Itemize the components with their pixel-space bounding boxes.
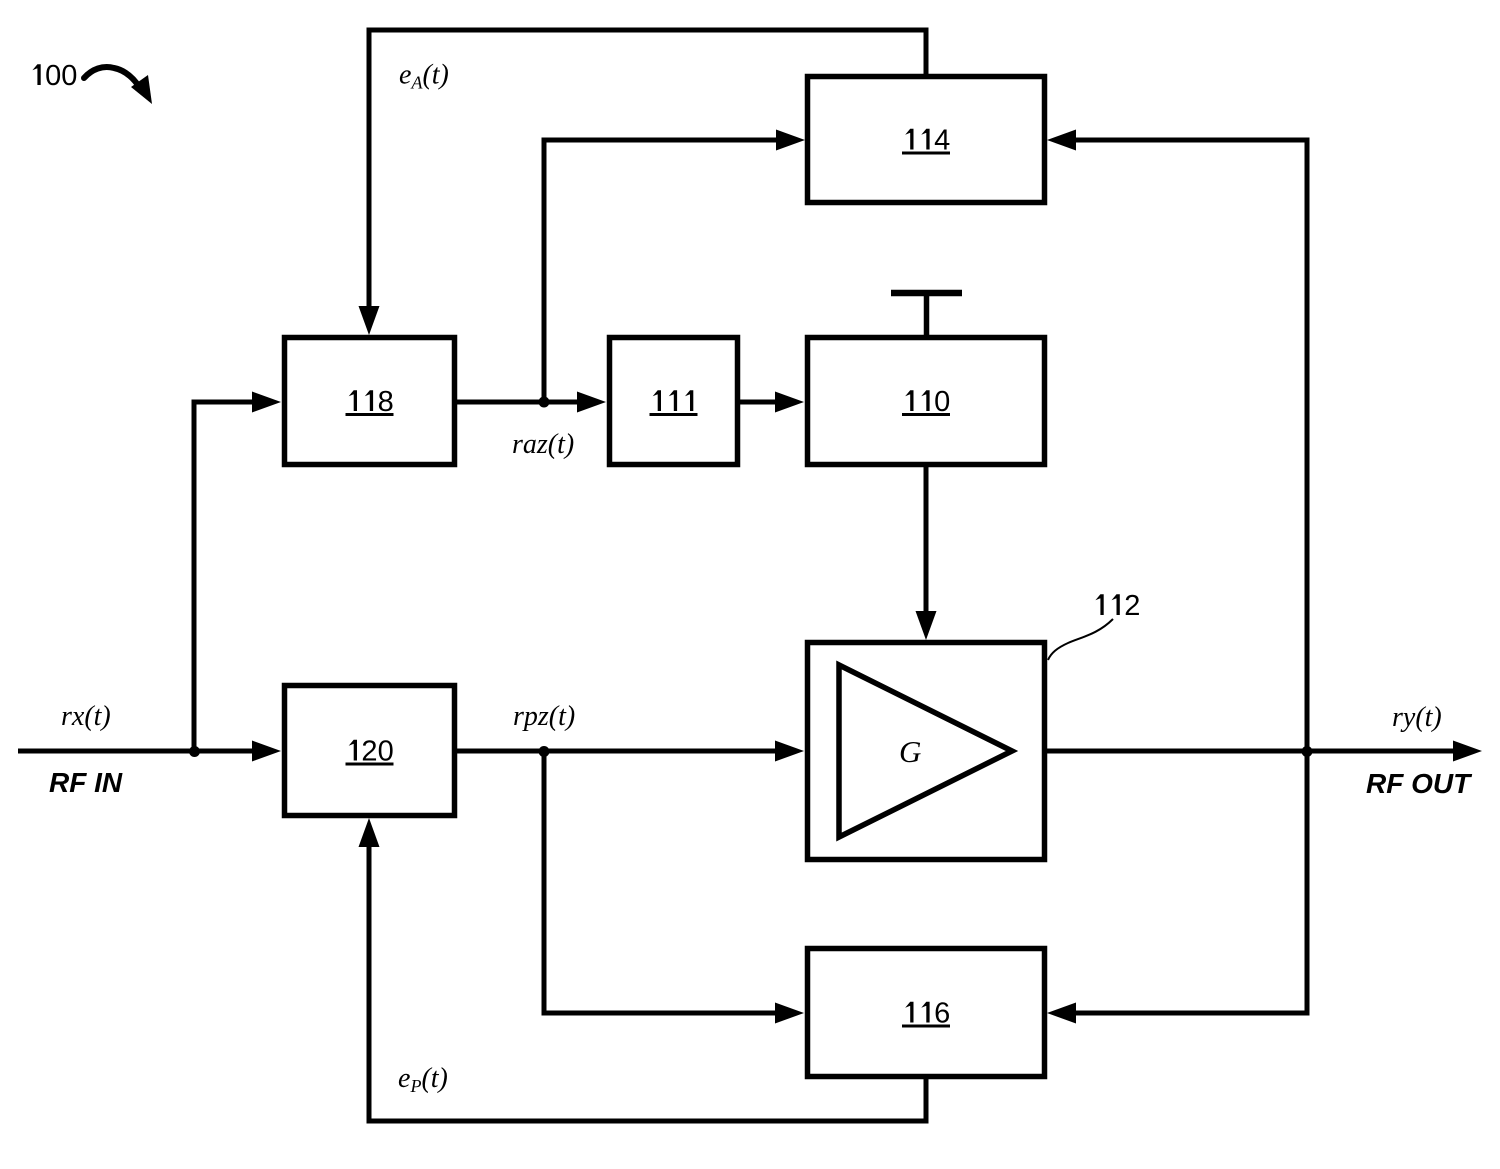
- arrowhead into 118 top: [359, 306, 380, 335]
- block 120: [285, 686, 455, 816]
- leader swoosh arrow for 100: [84, 67, 152, 104]
- arrowhead into 112 left: [775, 741, 804, 762]
- wire 120 to 112: [457, 749, 779, 754]
- wire into 116 right: [1073, 1011, 1307, 1016]
- junction dot rpz node: [539, 746, 550, 757]
- label eA(t): [399, 60, 449, 93]
- svg-text:G: G: [899, 734, 921, 769]
- svg-text:RF OUT: RF OUT: [1366, 768, 1473, 799]
- label rpz(t): [513, 701, 575, 732]
- figure label 100: [32, 60, 77, 92]
- arrowhead into 110 left: [775, 392, 804, 413]
- label G: [899, 734, 921, 769]
- arrowhead into 111 left: [577, 392, 606, 413]
- block 110: [808, 338, 1045, 465]
- antenna symbol on 110: [891, 293, 962, 337]
- svg-text:0: 0: [61, 60, 77, 92]
- label ry(t): [1392, 702, 1442, 733]
- label rx(t): [61, 701, 111, 732]
- svg-text:eP(t): eP(t): [398, 1063, 448, 1096]
- label eP(t): [398, 1063, 448, 1096]
- arrowhead into 118 left: [252, 392, 281, 413]
- arrowhead into 120 left: [252, 741, 281, 762]
- block 111: [610, 338, 738, 465]
- amplifier triangle: [839, 665, 1012, 837]
- block 112 (amplifier): [808, 643, 1045, 860]
- junction dot ry node: [1302, 746, 1313, 757]
- RF IN line: [18, 749, 257, 754]
- svg-text:rpz(t): rpz(t): [513, 701, 575, 732]
- svg-text:eA(t): eA(t): [399, 60, 449, 93]
- label raz(t): [512, 429, 574, 460]
- label RF IN: [49, 767, 123, 798]
- arrowhead RF OUT: [1453, 741, 1482, 762]
- wire 112 to RF OUT: [1047, 749, 1456, 754]
- wire 111 to 110: [740, 400, 780, 405]
- wire 110 down to 112: [924, 467, 929, 615]
- wire rpz branch down into 116 left: [544, 751, 779, 1013]
- svg-text:RF IN: RF IN: [49, 767, 123, 798]
- squiggle leader from 112 label to block corner: [1048, 619, 1113, 660]
- label RF OUT: [1366, 768, 1473, 799]
- arrowhead into 112 top: [916, 611, 937, 640]
- svg-text:raz(t): raz(t): [512, 429, 574, 460]
- junction dot rx node: [189, 746, 200, 757]
- wire right feedback vertical (ry node down to 116 level): [1305, 138, 1310, 1016]
- svg-text:ry(t): ry(t): [1392, 702, 1442, 733]
- svg-text:2: 2: [1124, 590, 1140, 622]
- arrowhead into 116 right: [1047, 1003, 1076, 1024]
- wire into 114 right: [1072, 138, 1307, 143]
- svg-text:rx(t): rx(t): [61, 701, 111, 732]
- wire raz branch up into 114 left: [544, 140, 780, 402]
- svg-text:0: 0: [45, 60, 61, 92]
- block 118: [285, 338, 455, 465]
- arrowhead into 116 left: [775, 1003, 804, 1024]
- arrowhead into 120 bottom: [359, 818, 380, 847]
- label 112: [1095, 590, 1140, 622]
- arrowhead into 114 right: [1047, 130, 1076, 151]
- junction dot raz node: [539, 397, 550, 408]
- wire eA feedback: 114 top, up, left, down into 118 top: [369, 30, 926, 312]
- wire eP feedback: 116 bottom, down, left, up into 120 bottom: [369, 844, 926, 1121]
- wire rx branch up into 118 left: [194, 402, 256, 751]
- wire 118 to 111: [457, 400, 582, 405]
- arrowhead into 114 left: [776, 130, 805, 151]
- block 114: [808, 77, 1045, 203]
- block 116: [808, 949, 1045, 1077]
